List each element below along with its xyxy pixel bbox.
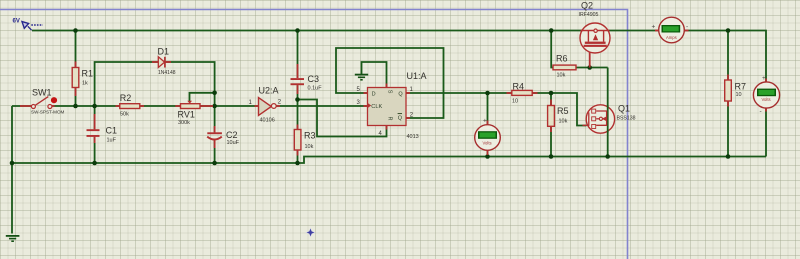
svg-text:10k: 10k <box>305 144 314 150</box>
svg-text:1uF: 1uF <box>107 138 117 144</box>
svg-text:S: S <box>387 90 393 94</box>
svg-text:-: - <box>760 108 762 115</box>
svg-text:R2: R2 <box>120 93 132 103</box>
svg-text:CLK: CLK <box>371 104 382 110</box>
svg-text:R3: R3 <box>304 131 316 141</box>
svg-text:BSS138: BSS138 <box>617 116 636 122</box>
svg-text:300k: 300k <box>178 120 190 126</box>
svg-text:0.1uF: 0.1uF <box>308 86 323 92</box>
svg-text:R6: R6 <box>556 54 568 64</box>
svg-text:Q: Q <box>398 91 403 97</box>
svg-text:RV1: RV1 <box>178 110 195 120</box>
svg-text:U2:A: U2:A <box>259 86 279 96</box>
svg-text:C2: C2 <box>226 130 238 140</box>
svg-text:-: - <box>686 24 688 31</box>
svg-text:Q: Q <box>398 116 403 122</box>
svg-text:+: + <box>762 75 766 82</box>
svg-text:SW-SPST-MOM: SW-SPST-MOM <box>31 110 65 115</box>
svg-text:R7: R7 <box>735 82 747 92</box>
svg-text:Q2: Q2 <box>581 1 593 11</box>
svg-text:Amps: Amps <box>666 35 677 40</box>
svg-text:10: 10 <box>512 99 518 105</box>
svg-text:10: 10 <box>736 92 742 98</box>
svg-text:4013: 4013 <box>407 134 419 140</box>
svg-text:C3: C3 <box>308 74 320 84</box>
svg-text:10uF: 10uF <box>227 140 240 146</box>
svg-text:Volts: Volts <box>762 97 771 102</box>
svg-text:1k: 1k <box>82 81 88 87</box>
svg-text:+: + <box>652 24 656 31</box>
svg-text:R1: R1 <box>82 69 94 79</box>
svg-text:50k: 50k <box>120 112 129 118</box>
svg-text:1N4148: 1N4148 <box>158 70 176 76</box>
svg-text:R: R <box>387 117 393 121</box>
svg-text:R4: R4 <box>513 82 525 92</box>
svg-text:10k: 10k <box>559 119 568 125</box>
svg-text:SW1: SW1 <box>32 88 52 98</box>
svg-text:Q1: Q1 <box>618 104 630 114</box>
svg-text:10k: 10k <box>557 73 566 79</box>
svg-text:D: D <box>372 91 376 97</box>
svg-text:+: + <box>483 118 487 125</box>
svg-text:6V: 6V <box>13 19 20 25</box>
svg-text:2: 2 <box>278 100 282 106</box>
svg-text:D1: D1 <box>158 47 170 57</box>
svg-text:U1:A: U1:A <box>407 71 427 81</box>
svg-text:Volts: Volts <box>483 141 492 146</box>
svg-text:IRF4905: IRF4905 <box>579 12 599 18</box>
svg-text:40106: 40106 <box>260 118 275 124</box>
svg-text:R5: R5 <box>557 106 569 116</box>
svg-text:C1: C1 <box>106 126 118 136</box>
